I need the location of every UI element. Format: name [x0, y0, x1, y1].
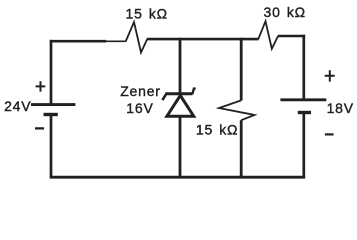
battery V2 18V short plate [298, 111, 311, 114]
svg-text:15 kΩ: 15 kΩ [196, 122, 238, 138]
wire thin lead into R1 [106, 40, 126, 42]
label V2 minus sign [325, 133, 334, 135]
wire left vertical lower [50, 115, 53, 179]
wire top-middle segment [147, 38, 259, 41]
wire right vertical lower [302, 113, 305, 179]
battery V1 24V short plate [44, 113, 58, 116]
bottom wire [50, 176, 305, 179]
svg-text:18V: 18V [327, 100, 354, 116]
label V1 plus sign [36, 81, 46, 91]
wire right vertical upper [302, 35, 305, 100]
label V2 plus sign [325, 70, 335, 81]
wire resistor R3 branch upper [240, 38, 243, 101]
resistor R1 15k top zigzag [126, 22, 147, 53]
zener diode D1 cathode bar [165, 92, 192, 95]
battery V2 18V long plate [280, 98, 326, 101]
zener diode D1 bar right bent tip [192, 89, 195, 95]
svg-text:24V: 24V [4, 98, 31, 114]
svg-text:30 kΩ: 30 kΩ [264, 4, 306, 20]
wire left vertical upper [50, 40, 53, 105]
svg-text:16V: 16V [126, 100, 153, 116]
wire top-left segment [50, 40, 106, 43]
resistor R3 15k vertical zigzag [219, 100, 255, 120]
battery V1 24V long plate [31, 103, 75, 106]
zener diode D1 bar left bent tip [162, 94, 166, 100]
wire top-right segment [278, 35, 305, 38]
resistor R2 30k zigzag [258, 21, 278, 49]
svg-text:15 kΩ: 15 kΩ [126, 6, 168, 22]
label V1 minus sign [35, 127, 44, 129]
wire zener branch lower [179, 116, 182, 177]
zener diode D1 triangle [167, 95, 194, 116]
svg-text:Zener: Zener [120, 83, 161, 99]
wire zener branch upper [179, 38, 182, 94]
wire resistor R3 branch lower [240, 120, 243, 177]
